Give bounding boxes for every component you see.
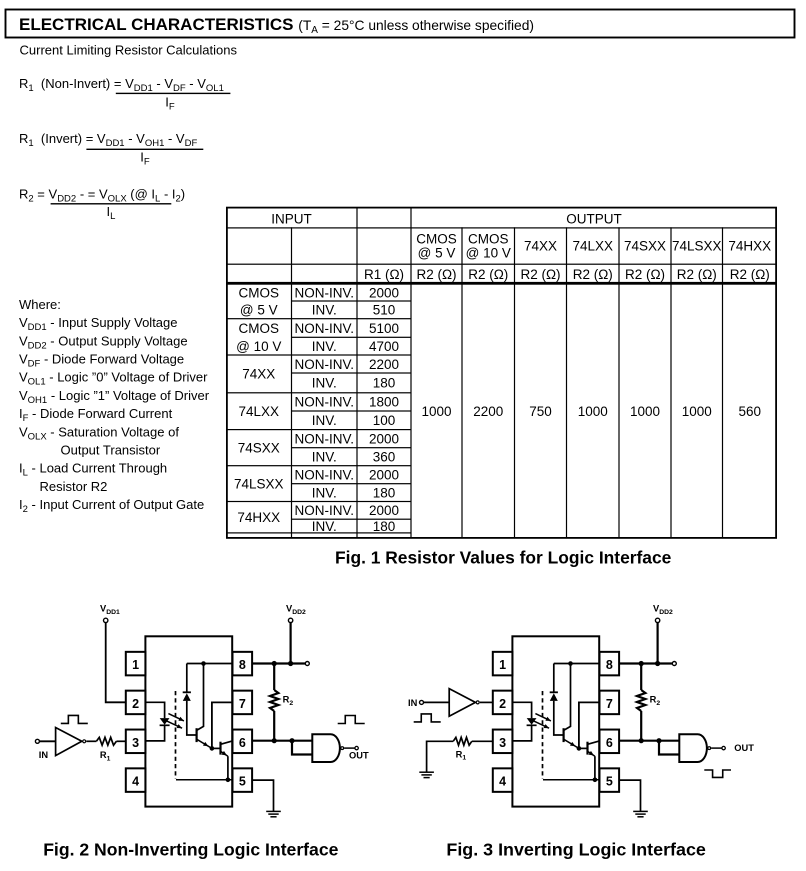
svg-text:2000: 2000 [369,286,399,301]
svg-text:180: 180 [373,519,396,534]
svg-text:74HXX: 74HXX [237,510,280,525]
svg-text:560: 560 [738,404,761,419]
svg-text:5: 5 [239,775,246,789]
svg-text:OUT: OUT [349,751,369,761]
svg-text:74LXX: 74LXX [238,404,279,419]
svg-text:4700: 4700 [369,339,399,354]
svg-text:4: 4 [499,775,506,789]
svg-text:1000: 1000 [630,404,660,419]
svg-text:5: 5 [606,775,613,789]
svg-text:74LSXX: 74LSXX [672,239,722,254]
svg-text:74XX: 74XX [242,367,275,382]
svg-text:NON-INV.: NON-INV. [294,503,354,518]
svg-text:74HXX: 74HXX [728,239,771,254]
svg-text:IN: IN [39,750,49,760]
svg-text:NON-INV.: NON-INV. [294,286,354,301]
svg-text:R2 (Ω): R2 (Ω) [730,267,770,282]
svg-text:R2 (Ω): R2 (Ω) [416,267,456,282]
svg-text:IL​: IL​ [107,204,116,222]
svg-text:Output Transistor: Output Transistor [61,442,161,457]
svg-text:CMOS: CMOS [239,286,280,301]
svg-text:1800: 1800 [369,395,399,410]
svg-text:INV.: INV. [312,413,337,428]
svg-text:510: 510 [373,303,396,318]
svg-text:1000: 1000 [578,404,608,419]
svg-text:VOH1​ - Logic ”1” Voltage of D: VOH1​ - Logic ”1” Voltage of Driver [19,388,210,406]
svg-text:R1: R1 [456,749,467,761]
svg-text:2000: 2000 [369,468,399,483]
svg-text:8: 8 [606,658,613,672]
svg-text:100: 100 [373,413,396,428]
svg-text:R2 (Ω): R2 (Ω) [677,267,717,282]
svg-text:R2: R2 [283,694,294,707]
svg-text:CMOS: CMOS [468,232,509,247]
svg-text:R2 (Ω): R2 (Ω) [625,267,665,282]
svg-text:Fig. 2 Non-Inverting Logic Int: Fig. 2 Non-Inverting Logic Interface [43,840,338,860]
svg-text:NON-INV.: NON-INV. [294,395,354,410]
svg-text:2: 2 [132,697,139,711]
svg-text:7: 7 [239,697,246,711]
svg-text:R2 (Ω): R2 (Ω) [468,267,508,282]
svg-text:VDD2: VDD2 [286,604,306,616]
svg-text:IN: IN [408,698,418,708]
svg-text:OUT: OUT [734,743,754,753]
svg-text:IF​: IF​ [140,150,150,168]
svg-text:VDD1: VDD1 [100,604,120,616]
svg-text:R1​ (Non-Invert) = VDD1​ - VD: R1​ (Non-Invert) = VDD1​ - VDF​ - VOL1​ [19,76,224,94]
svg-text:NON-INV.: NON-INV. [294,468,354,483]
svg-text:VDD1​ - Input Supply Voltage: VDD1​ - Input Supply Voltage [19,315,178,333]
svg-text:74LXX: 74LXX [572,239,613,254]
svg-text:VOL1​ - Logic ”0” Voltage of D: VOL1​ - Logic ”0” Voltage of Driver [19,370,208,388]
svg-text:IF​ - Diode Forward Current: IF​ - Diode Forward Current [19,406,173,424]
svg-text:2000: 2000 [369,431,399,446]
svg-text:3: 3 [132,736,139,750]
svg-text:NON-INV.: NON-INV. [294,431,354,446]
svg-text:1000: 1000 [682,404,712,419]
svg-text:180: 180 [373,376,396,391]
svg-text:74SXX: 74SXX [238,440,280,455]
svg-text:1: 1 [499,658,506,672]
svg-text:3: 3 [499,736,506,750]
svg-text:@ 10 V: @ 10 V [236,339,281,354]
svg-text:74SXX: 74SXX [624,239,666,254]
svg-text:VDF​ - Diode Forward Voltage: VDF​ - Diode Forward Voltage [19,352,184,370]
svg-text:ELECTRICAL CHARACTERISTICS (TA: ELECTRICAL CHARACTERISTICS (TA = 25°C un… [19,15,534,36]
svg-text:180: 180 [373,485,396,500]
svg-text:Where:: Where: [19,297,61,312]
svg-text:IL​ - Load Current Through: IL​ - Load Current Through [19,461,167,479]
svg-text:7: 7 [606,697,613,711]
svg-text:@ 10 V: @ 10 V [466,246,511,261]
svg-text:360: 360 [373,450,396,465]
svg-text:INV.: INV. [312,450,337,465]
svg-text:INV.: INV. [312,519,337,534]
svg-text:R2: R2 [650,694,661,707]
svg-text:VDD2​ - Output Supply Voltage: VDD2​ - Output Supply Voltage [19,333,188,351]
svg-text:VDD2: VDD2 [653,604,673,616]
svg-text:R2 (Ω): R2 (Ω) [573,267,613,282]
svg-text:2200: 2200 [369,357,399,372]
svg-text:INV.: INV. [312,376,337,391]
svg-text:@ 5 V: @ 5 V [418,246,456,261]
svg-text:VOLX​ - Saturation Voltage of: VOLX​ - Saturation Voltage of [19,424,179,442]
svg-text:6: 6 [239,736,246,750]
svg-text:2: 2 [499,697,506,711]
svg-text:Current Limiting Resistor Calc: Current Limiting Resistor Calculations [20,43,238,58]
svg-text:NON-INV.: NON-INV. [294,321,354,336]
svg-text:1000: 1000 [421,404,451,419]
svg-text:@ 5 V: @ 5 V [240,303,278,318]
svg-text:CMOS: CMOS [416,232,457,247]
svg-text:1: 1 [132,658,139,672]
svg-text:R2 (Ω): R2 (Ω) [520,267,560,282]
svg-text:4: 4 [132,775,139,789]
svg-text:74XX: 74XX [524,239,557,254]
svg-text:2200: 2200 [473,404,503,419]
svg-text:I2​ - Input Current of Output: I2​ - Input Current of Output Gate [19,497,204,515]
svg-text:74LSXX: 74LSXX [234,476,284,491]
svg-text:750: 750 [529,404,552,419]
svg-text:INPUT: INPUT [271,212,312,227]
svg-text:Fig. 1 Resistor Values for Log: Fig. 1 Resistor Values for Logic Interfa… [335,548,672,568]
svg-text:CMOS: CMOS [239,321,280,336]
svg-text:NON-INV.: NON-INV. [294,357,354,372]
svg-text:R1 (Ω): R1 (Ω) [364,267,404,282]
svg-text:OUTPUT: OUTPUT [566,212,622,227]
svg-text:Resistor R2: Resistor R2 [40,479,108,494]
svg-text:IF​: IF​ [165,94,175,112]
svg-text:8: 8 [239,658,246,672]
svg-text:INV.: INV. [312,485,337,500]
svg-text:R1: R1 [100,750,111,762]
svg-text:6: 6 [606,736,613,750]
svg-text:R1​ (Invert) = VDD1​ - VOH1​: R1​ (Invert) = VDD1​ - VOH1​ - VDF​ [19,131,197,149]
svg-text:2000: 2000 [369,503,399,518]
svg-text:Fig. 3 Inverting Logic Interfa: Fig. 3 Inverting Logic Interface [446,840,706,860]
svg-text:5100: 5100 [369,321,399,336]
svg-text:INV.: INV. [312,339,337,354]
svg-text:R2​ = VDD2​ - = VOLX​ (@ IL​ -: R2​ = VDD2​ - = VOLX​ (@ IL​ - I2​) [19,186,185,204]
svg-text:INV.: INV. [312,303,337,318]
